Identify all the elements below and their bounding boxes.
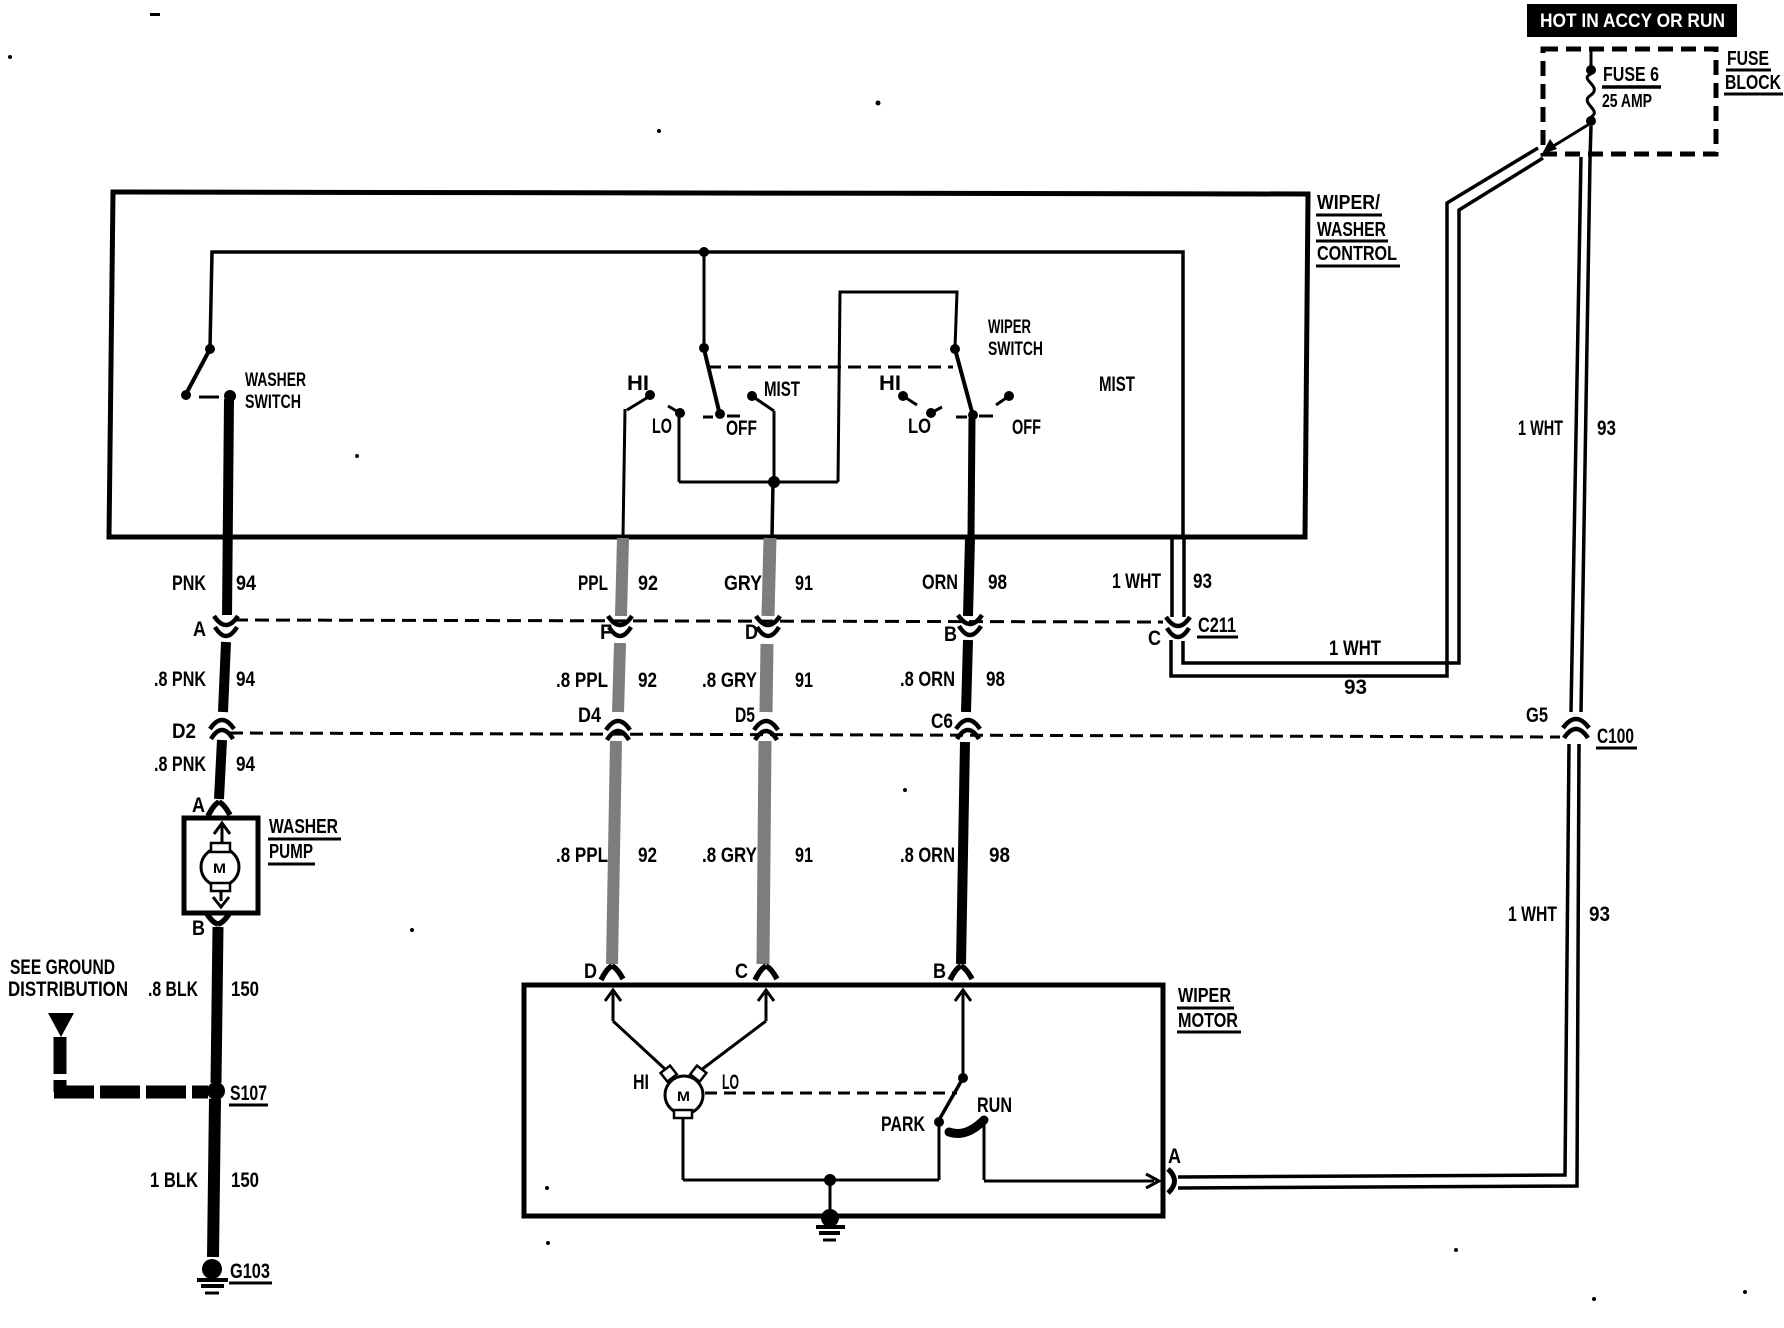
svg-text:S107: S107 (230, 1082, 267, 1105)
svg-text:93: 93 (1193, 570, 1212, 593)
wire ORN drop inside control (971, 418, 972, 537)
wire motor armature to ground bus (683, 1118, 939, 1180)
svg-text:92: 92 (638, 669, 657, 692)
svg-text:93: 93 (1344, 676, 1367, 699)
ground G103 (197, 1259, 228, 1293)
motor terminal D arrow and lead (605, 990, 666, 1070)
washer pump connector B (female wings) (207, 914, 229, 924)
label B (pump) (192, 917, 205, 940)
wire .8 PPL 92 (C100 to motor) (612, 741, 616, 964)
mechanical link dashed (motor to park switch) (705, 1092, 957, 1095)
svg-text:B: B (192, 917, 205, 940)
svg-text:WASHER: WASHER (1317, 219, 1386, 241)
svg-text:OFF: OFF (726, 417, 757, 440)
svg-text:LO: LO (722, 1071, 739, 1094)
motor terminal B arrow and lead (955, 990, 971, 1076)
svg-text:D: D (745, 621, 758, 644)
wire 1 BLK 150 (213, 1099, 215, 1257)
contact HI (left) (627, 390, 655, 410)
washer switch pivot (205, 344, 215, 354)
svg-text:WIPER: WIPER (988, 317, 1031, 338)
contact MIST (left) (747, 391, 774, 411)
svg-text:150: 150 (231, 978, 259, 1001)
svg-text:1 BLK: 1 BLK (150, 1169, 198, 1192)
contact MIST (right) (996, 391, 1014, 405)
svg-text:SWITCH: SWITCH (245, 392, 301, 413)
svg-text:92: 92 (638, 844, 657, 867)
contact HI (right) (898, 391, 917, 405)
wire pair 1 WHT 93 fuse to C211 (outer line) (1171, 148, 1538, 676)
svg-text:PUMP: PUMP (269, 841, 313, 863)
svg-text:94: 94 (236, 753, 255, 776)
label WIPER/WASHER CONTROL (1316, 192, 1400, 266)
label C (C211) (1148, 627, 1161, 650)
wiper switch right pivot (950, 344, 960, 354)
svg-text:94: 94 (236, 668, 255, 691)
washer switch arm (181, 349, 210, 400)
splice S107 (207, 1082, 225, 1100)
svg-text:D: D (584, 960, 597, 983)
label D (motor) (584, 960, 597, 983)
svg-text:91: 91 (795, 572, 813, 595)
ground junction node (824, 1174, 836, 1186)
pump terminal B arrow (213, 892, 229, 907)
svg-text:HI: HI (879, 372, 901, 395)
svg-text:93: 93 (1597, 417, 1616, 440)
svg-text:D5: D5 (735, 704, 755, 727)
svg-text:RUN: RUN (977, 1094, 1012, 1117)
label 1 WHT 93 (C211 loop) (1329, 637, 1381, 699)
label .8 GRY 91 (lower) (702, 844, 813, 867)
label MIST (right) (1099, 373, 1135, 396)
svg-text:150: 150 (231, 1169, 259, 1192)
label A (motor) (1168, 1145, 1181, 1168)
connector C211 ORN cavity B (958, 615, 982, 635)
label PNK 94 (172, 572, 256, 595)
label ORN 98 (922, 571, 1007, 594)
svg-text:MIST: MIST (1099, 373, 1135, 396)
wiper switch right arm (955, 349, 978, 420)
label 1 WHT 93 (upper right) (1518, 417, 1616, 440)
wiper switch left pivot riser (703, 252, 706, 348)
washer switch gap dash (199, 396, 219, 399)
link wire left cluster to right pivot (838, 292, 957, 482)
svg-text:1 WHT: 1 WHT (1518, 417, 1563, 440)
svg-text:B: B (944, 623, 957, 646)
svg-text:A: A (192, 794, 205, 817)
svg-text:C: C (735, 960, 748, 983)
bus junction node (699, 247, 709, 257)
svg-text:HI: HI (627, 372, 649, 395)
ground distribution arrow (48, 1013, 74, 1037)
svg-text:A: A (1168, 1145, 1181, 1168)
svg-text:.8 GRY: .8 GRY (702, 844, 757, 867)
motor connector A (female cup) (1168, 1169, 1175, 1193)
svg-text:1 WHT: 1 WHT (1508, 903, 1557, 926)
svg-text:1 WHT: 1 WHT (1329, 637, 1381, 660)
label 1 WHT 93 (lower right) (1508, 903, 1610, 926)
svg-text:A: A (193, 618, 206, 641)
label MIST (left) (764, 378, 800, 401)
label D5 (735, 704, 755, 727)
wire .8 ORN 98 (C100 to motor) (961, 742, 965, 964)
svg-text:GRY: GRY (724, 572, 762, 595)
label D2 (172, 720, 196, 743)
label 1 WHT 93 (row1) (1112, 570, 1212, 593)
contact LO (right) (926, 407, 942, 418)
connector C100 GRY cavity D5 (754, 721, 778, 740)
label B (motor) (933, 960, 946, 983)
wire pair 1 WHT 93 fuse to wiper motor A (left line) (1178, 157, 1581, 1177)
svg-text:D2: D2 (172, 720, 196, 743)
washer switch contact (224, 390, 236, 402)
label A (C211) (193, 618, 206, 641)
park switch arm (939, 1078, 963, 1120)
wiper switch left pivot (699, 343, 709, 353)
svg-text:WASHER: WASHER (269, 816, 338, 838)
pump terminal A arrow (214, 823, 230, 846)
label .8 PNK 94 (lower) (154, 753, 255, 776)
svg-text:91: 91 (795, 844, 813, 867)
svg-text:M: M (213, 860, 226, 876)
contact PARK (934, 1117, 944, 1127)
svg-text:FUSE: FUSE (1727, 48, 1769, 70)
wire LO drop (678, 414, 681, 482)
dashed wire to S107 (54, 1037, 208, 1092)
svg-text:BLOCK: BLOCK (1725, 72, 1781, 94)
label LO (right) (908, 415, 931, 438)
park switch junction node (958, 1073, 968, 1083)
label OFF (left) (726, 417, 757, 440)
label PARK (881, 1113, 925, 1136)
connector C100 dashed line (230, 733, 1560, 737)
connector C211 PPL cavity F (608, 616, 632, 636)
label LO (motor) (722, 1071, 739, 1094)
label S107 (229, 1082, 268, 1105)
label A (pump) (192, 794, 205, 817)
terminal A arrow (male) (1146, 1174, 1159, 1188)
power feed banner HOT IN ACCY OR RUN (1527, 4, 1737, 37)
label C (motor) (735, 960, 748, 983)
label .8 PNK 94 (154, 668, 255, 691)
connector C211 WHT cavity C (1166, 617, 1190, 637)
svg-text:FUSE 6: FUSE 6 (1603, 64, 1659, 86)
svg-text:98: 98 (986, 668, 1005, 691)
connector C211 dashed line (234, 620, 1163, 622)
label GRY 91 (724, 572, 813, 595)
label B (C211) (944, 623, 957, 646)
label 1 BLK 150 (150, 1169, 259, 1192)
svg-text:C: C (1148, 627, 1161, 650)
label PPL 92 (578, 572, 658, 595)
internal feed bus wire (210, 252, 1183, 536)
motor terminal C arrow and lead (701, 990, 774, 1070)
svg-text:92: 92 (638, 572, 658, 595)
connector C211 GRY cavity D (756, 616, 780, 636)
label RUN (977, 1094, 1012, 1117)
svg-text:.8 PPL: .8 PPL (556, 844, 608, 867)
wire GRY drop inside control (772, 482, 773, 537)
label .8 ORN 98 (900, 668, 1005, 691)
svg-text:MIST: MIST (764, 378, 800, 401)
svg-text:.8 PNK: .8 PNK (154, 753, 206, 776)
contact RUN (949, 1120, 984, 1134)
wire .8 GRY 91 (C100 to motor) (763, 741, 765, 964)
wiper motor M (661, 1066, 707, 1118)
pump motor M (201, 843, 239, 891)
svg-text:PARK: PARK (881, 1113, 925, 1136)
wiper switch left arm (704, 349, 725, 419)
label C100 (1596, 725, 1637, 748)
label LO (left) (652, 415, 672, 438)
svg-text:WASHER: WASHER (245, 370, 306, 391)
wire PARK drop (938, 1122, 941, 1180)
label .8 GRY 91 (702, 669, 813, 692)
svg-text:B: B (933, 960, 946, 983)
svg-text:.8 GRY: .8 GRY (702, 669, 757, 692)
svg-text:.8 PNK: .8 PNK (154, 668, 206, 691)
wire .8 BLK 150 (216, 927, 218, 1083)
wire .8 PPL 92 (C211 to C100) (618, 643, 620, 712)
mechanical link dashed (switch) (708, 366, 953, 369)
svg-text:DISTRIBUTION: DISTRIBUTION (8, 978, 128, 1001)
svg-text:LO: LO (908, 415, 931, 438)
contact LO (left) (668, 406, 685, 418)
label WIPER SWITCH (988, 317, 1043, 360)
svg-text:93: 93 (1589, 903, 1610, 926)
motor connector D (female wings) (601, 966, 623, 980)
label SEE GROUND DISTRIBUTION (8, 956, 128, 1001)
svg-text:OFF: OFF (1012, 416, 1041, 439)
svg-text:WIPER/: WIPER/ (1317, 192, 1380, 214)
svg-text:.8 ORN: .8 ORN (900, 668, 955, 691)
wire ORN 98 (control to C211) (968, 538, 970, 616)
fuse block label (1724, 48, 1783, 94)
svg-text:PPL: PPL (578, 572, 608, 595)
svg-text:G5: G5 (1526, 704, 1548, 727)
label WIPER MOTOR (1177, 985, 1241, 1032)
label HI (right) (879, 372, 901, 395)
label D (C211) (745, 621, 758, 644)
svg-text:1 WHT: 1 WHT (1112, 570, 1161, 593)
contact OFF (left) stubs (703, 416, 740, 417)
svg-text:D4: D4 (578, 704, 601, 727)
svg-text:ORN: ORN (922, 571, 958, 594)
label .8 ORN 98 (lower) (900, 844, 1010, 867)
svg-text:98: 98 (988, 571, 1007, 594)
wire pair 1 WHT 93 fuse to C211 (inner line) (1183, 158, 1543, 663)
svg-text:C100: C100 (1597, 725, 1634, 748)
wire RUN contact to terminal A (984, 1125, 1154, 1181)
svg-text:C6: C6 (931, 710, 953, 733)
wire pair below control box to C211 C (1172, 539, 1184, 617)
junction wire LO/MIST/GRY (679, 476, 838, 488)
motor case ground (816, 1180, 845, 1240)
fuse block outline (dashed) (1543, 49, 1716, 154)
svg-text:HOT IN ACCY OR RUN: HOT IN ACCY OR RUN (1540, 11, 1725, 32)
wire: fuse output diagonal lead (1542, 123, 1591, 154)
contact OFF (right) stubs (956, 416, 993, 417)
label OFF (right) (1012, 416, 1041, 439)
fuse FUSE 6 25 AMP (1586, 51, 1661, 126)
label C6 (931, 710, 953, 733)
label C211 (1197, 614, 1238, 637)
wiper/washer control box outline (109, 192, 1308, 537)
wire PPL 92 (control to C211) (621, 538, 623, 616)
label HI (left) (627, 372, 649, 395)
svg-text:.8 ORN: .8 ORN (900, 844, 955, 867)
svg-text:SWITCH: SWITCH (988, 339, 1043, 360)
connector C100 PPL cavity D4 (606, 721, 630, 740)
wire pair 1 WHT 93 fuse to wiper motor A (right line) (1178, 126, 1591, 1188)
label F (C211) (600, 621, 612, 644)
washer pump box (184, 818, 258, 913)
svg-text:SEE GROUND: SEE GROUND (10, 956, 115, 979)
wire MIST drop (773, 411, 776, 482)
label G103 (229, 1260, 272, 1283)
label HI (motor) (633, 1071, 649, 1094)
wire .8 PNK 94 (C211 to C100) (223, 642, 226, 712)
svg-text:LO: LO (652, 415, 672, 438)
label .8 PPL 92 (556, 669, 657, 692)
wire .8 GRY 91 (C211 to C100) (766, 644, 767, 712)
wire .8 ORN 98 (C211 to C100) (966, 640, 968, 712)
connector C100 WHT cavity G5 (1563, 719, 1589, 738)
svg-text:C211: C211 (1198, 614, 1236, 637)
svg-text:WIPER: WIPER (1178, 985, 1231, 1007)
label WASHER PUMP (268, 816, 341, 864)
connector C100 ORN cavity C6 (956, 720, 980, 739)
wire .8 PNK 94 (C100 to pump) (219, 740, 222, 799)
svg-text:91: 91 (795, 669, 813, 692)
label .8 PPL 92 (lower) (556, 844, 657, 867)
svg-text:HI: HI (633, 1071, 649, 1094)
label G5 (1526, 704, 1548, 727)
svg-text:CONTROL: CONTROL (1317, 243, 1397, 265)
svg-text:M: M (677, 1088, 690, 1104)
svg-text:G103: G103 (230, 1260, 270, 1283)
washer pump connector A (female wings) (208, 802, 230, 816)
svg-text:.8 PPL: .8 PPL (556, 669, 608, 692)
label WASHER SWITCH (245, 370, 306, 413)
wire PNK 94 (227, 399, 229, 615)
svg-text:25 AMP: 25 AMP (1602, 91, 1652, 111)
svg-text:98: 98 (989, 844, 1010, 867)
label D4 (578, 704, 601, 727)
motor connector B (female wings) (950, 966, 972, 980)
svg-text:PNK: PNK (172, 572, 206, 595)
motor connector C (female wings) (755, 966, 777, 980)
wire GRY 91 (control to C211) (768, 538, 770, 616)
svg-text:MOTOR: MOTOR (1178, 1010, 1238, 1032)
connector C100 PNK cavity D2 (210, 720, 234, 739)
wire HI to PPL drop (623, 409, 625, 537)
wiper motor box outline (524, 985, 1163, 1216)
connector C211 PNK cavity A (214, 616, 238, 636)
svg-text:94: 94 (236, 572, 256, 595)
label .8 BLK 150 (148, 978, 259, 1001)
svg-text:F: F (600, 621, 612, 644)
svg-text:.8 BLK: .8 BLK (148, 978, 198, 1001)
